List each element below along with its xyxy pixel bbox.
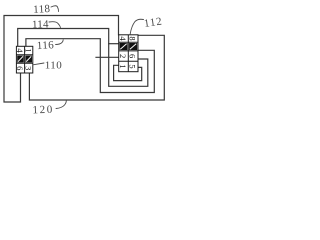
- svg-text:110: 110: [45, 60, 62, 72]
- svg-text:3: 3: [23, 66, 33, 70]
- svg-text:1: 1: [23, 48, 33, 52]
- svg-text:6: 6: [128, 54, 138, 58]
- svg-text:1: 1: [118, 64, 128, 68]
- svg-text:118: 118: [33, 3, 51, 16]
- svg-text:120: 120: [32, 104, 54, 117]
- svg-text:114: 114: [32, 18, 49, 31]
- svg-text:2: 2: [118, 54, 128, 58]
- svg-text:116: 116: [37, 39, 55, 52]
- svg-text:112: 112: [143, 15, 163, 29]
- svg-text:8: 8: [128, 36, 138, 40]
- svg-text:5: 5: [128, 64, 138, 68]
